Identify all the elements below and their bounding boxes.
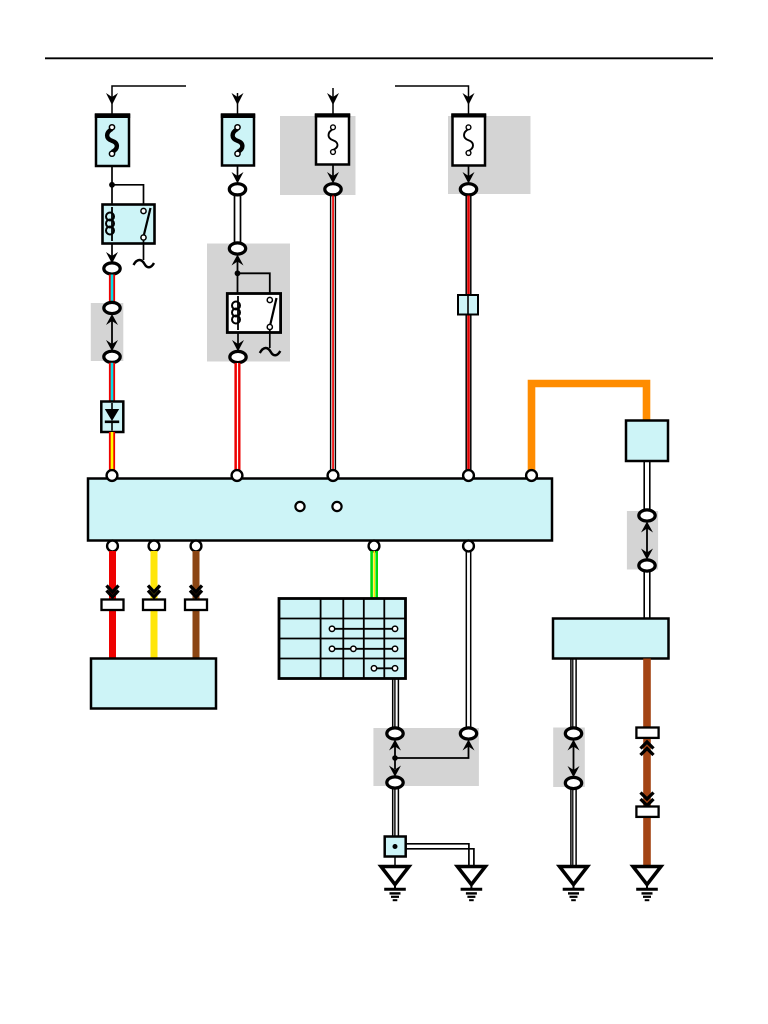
- top border rule: [45, 57, 713, 59]
- arrow down into connector L: [389, 766, 401, 777]
- connector D ellipse: [229, 184, 245, 195]
- grid vertical line 3: [363, 599, 365, 679]
- connector F ellipse: [230, 351, 246, 362]
- fuse F3 element: [329, 129, 338, 150]
- pin circle main box inner left: [295, 502, 304, 511]
- arrow up into connector B: [106, 314, 118, 325]
- arrow into fuse F2: [232, 93, 244, 105]
- small cyan box top right: [626, 421, 668, 462]
- arrow into fuse F1: [106, 93, 118, 105]
- relay R2 box: [227, 294, 280, 333]
- wire fuse F4 output: [468, 166, 470, 179]
- wire relay R2 output: [237, 333, 239, 348]
- arrow into fuse F3: [327, 93, 339, 105]
- arrow down into connector Q: [568, 766, 580, 777]
- wire white/black bottom right: [570, 659, 572, 729]
- connector B ellipse: [104, 302, 120, 313]
- wire white from main box to connector pair: [465, 551, 467, 728]
- junction rect brown right lower: [636, 807, 658, 817]
- pin circle top column1: [107, 470, 118, 481]
- wire red bottom left: [109, 551, 116, 659]
- fuse F1 box: [96, 115, 129, 167]
- arrow up into connector J: [389, 740, 401, 751]
- grid horizontal line 1: [279, 618, 406, 620]
- relay R1 switch: [144, 208, 151, 235]
- connector block on column4 wire: [458, 295, 478, 315]
- arrow up into connector P: [568, 740, 580, 751]
- connector E ellipse: [229, 243, 245, 254]
- fuse F3 box: [316, 115, 349, 165]
- wire fuse F1 to relay R1: [111, 166, 113, 205]
- wire white/black to ground G3: [570, 789, 572, 867]
- wire connector E to relay R2: [237, 262, 239, 295]
- chevron connector down brown wire: [641, 793, 654, 800]
- pin circle top column2: [232, 470, 243, 481]
- arrow into connector G: [327, 172, 339, 184]
- arrow up into connector E: [232, 255, 244, 266]
- junction rect yellow wire: [143, 600, 165, 611]
- connector M ellipse: [639, 510, 655, 521]
- wire red/lightblue segment 2: [109, 363, 115, 402]
- wire green/yellow: [370, 551, 373, 599]
- ground G3: [560, 867, 588, 885]
- relay R1 coil: [111, 207, 113, 241]
- fuse F1 element: [107, 129, 117, 152]
- wire orange jumper: [532, 384, 647, 472]
- connector L ellipse: [387, 777, 403, 788]
- wire fuse F2 output: [237, 166, 239, 179]
- arrow into fuse F4: [463, 93, 475, 105]
- shaded area behind fuse F4: [448, 116, 531, 194]
- wire between connectors P Q: [573, 747, 575, 772]
- wire red/white column3: [330, 196, 332, 472]
- wire fuse F3 output: [332, 165, 334, 179]
- arrow down into connector C: [106, 340, 118, 351]
- pin circle bottom white: [463, 541, 474, 552]
- shaded area behind connector pair right column: [627, 511, 658, 570]
- grid row4 link wire: [374, 667, 395, 669]
- main junction box: [88, 479, 552, 541]
- wire white double column2: [234, 196, 236, 245]
- component box bottom left: [91, 659, 216, 709]
- relay R2 coil: [237, 296, 239, 330]
- arrow into connector F: [232, 340, 244, 352]
- ground junction block: [385, 837, 406, 857]
- junction block grid box: [279, 599, 406, 679]
- chevron connector brown wire: [190, 586, 202, 593]
- arrow into connector A: [106, 252, 118, 264]
- junction rect brown wire: [185, 600, 207, 611]
- arrow up into connector M: [641, 522, 653, 533]
- grid vertical line 4: [383, 599, 385, 679]
- ground G2: [457, 867, 485, 885]
- grid horizontal line 3: [279, 658, 406, 660]
- node inside ground junction block: [393, 844, 398, 849]
- arrow into connector H: [463, 172, 475, 184]
- pin circle top column3: [328, 470, 339, 481]
- connector G ellipse: [325, 184, 341, 195]
- pin circle bottom red: [107, 541, 118, 552]
- wire relay R2 switch to tilde: [269, 330, 271, 349]
- pin circle main box inner right: [332, 502, 341, 511]
- diode D1 box: [101, 402, 123, 433]
- tilde terminal relay R2: [260, 348, 281, 355]
- connector J ellipse: [387, 728, 403, 739]
- connector C ellipse: [104, 351, 120, 362]
- connector P ellipse: [565, 728, 581, 739]
- wire branch to relay R1 switch: [112, 185, 144, 211]
- chevron connector up brown wire: [641, 742, 654, 749]
- diode D1 symbol: [111, 403, 113, 410]
- connector H ellipse: [460, 184, 476, 195]
- wire branch to relay R2 switch: [238, 273, 270, 300]
- ground G4: [633, 867, 661, 885]
- arrow up into connector K: [463, 740, 475, 751]
- connector A ellipse: [104, 263, 120, 274]
- wire feed to fuse F3: [332, 88, 334, 114]
- arrow into connector D: [232, 172, 244, 184]
- wire double to ground G2: [406, 844, 469, 867]
- component box bottom right: [553, 619, 669, 659]
- pin circle top orange: [526, 470, 537, 481]
- fuse F2 box: [222, 115, 254, 166]
- fuse F4 box: [453, 115, 486, 166]
- grid vertical line 1: [320, 599, 322, 679]
- arrow down into connector N: [641, 549, 653, 560]
- grid row2 link wire: [332, 628, 395, 630]
- relay R1 box: [103, 205, 155, 244]
- tilde terminal: [134, 260, 155, 267]
- grid row3 link wire: [332, 648, 395, 650]
- grid vertical line 2: [342, 599, 344, 679]
- connector K ellipse: [460, 728, 476, 739]
- shaded area behind connector pair bottom middle: [373, 728, 479, 786]
- wire between connectors B C: [111, 321, 113, 345]
- shaded area behind connector pair column1: [91, 303, 124, 361]
- wire red/yellow below diode: [109, 432, 115, 472]
- wire black/red column4: [465, 196, 467, 472]
- wire relay R1 switch to tilde: [143, 240, 145, 260]
- chevron connector yellow wire: [148, 586, 160, 593]
- shaded area behind fuse F3: [280, 116, 356, 195]
- junction rect red wire: [102, 600, 124, 611]
- pin circle top column4: [463, 470, 474, 481]
- wire relay R1 output: [111, 244, 113, 260]
- wire feed to fuse F2: [237, 93, 239, 114]
- node junction column2: [235, 270, 241, 276]
- wire white/black to ground block: [392, 789, 394, 838]
- relay R2 switch: [270, 298, 276, 325]
- wire to ground G1: [394, 857, 396, 868]
- shaded area behind connector pair bottom right: [553, 728, 585, 788]
- wire white to component box right: [643, 572, 645, 619]
- wire yellow bottom left: [151, 551, 158, 659]
- grid horizontal line 2: [279, 638, 406, 640]
- wire white from small box down: [643, 461, 645, 511]
- wire white/black below grid box: [392, 679, 394, 729]
- node junction bottom middle: [392, 755, 398, 761]
- junction rect brown right upper: [636, 728, 658, 738]
- wire feed to fuse F4: [395, 86, 469, 114]
- pin circle bottom brown: [191, 541, 202, 552]
- wire brown bottom right: [643, 659, 651, 867]
- connector Q ellipse: [565, 777, 581, 788]
- fuse F2 element: [233, 129, 243, 152]
- fuse F4 element: [464, 129, 473, 151]
- wire between connectors M N: [646, 528, 648, 553]
- wire joining connectors J K: [395, 747, 469, 759]
- chevron connector red wire: [107, 586, 119, 593]
- pin circle bottom green: [369, 541, 380, 552]
- wire brown bottom left: [193, 551, 200, 659]
- wire red double column2: [234, 363, 240, 471]
- connector N ellipse: [639, 560, 655, 571]
- pin circle bottom yellow: [149, 541, 160, 552]
- wire red/lightblue segment 1: [109, 275, 115, 305]
- ground G1: [381, 867, 409, 885]
- wire feed to fuse F1: [112, 86, 186, 114]
- node junction column1: [109, 182, 115, 188]
- shaded area behind relay R2: [207, 244, 290, 362]
- wire junction to connector L: [394, 758, 396, 769]
